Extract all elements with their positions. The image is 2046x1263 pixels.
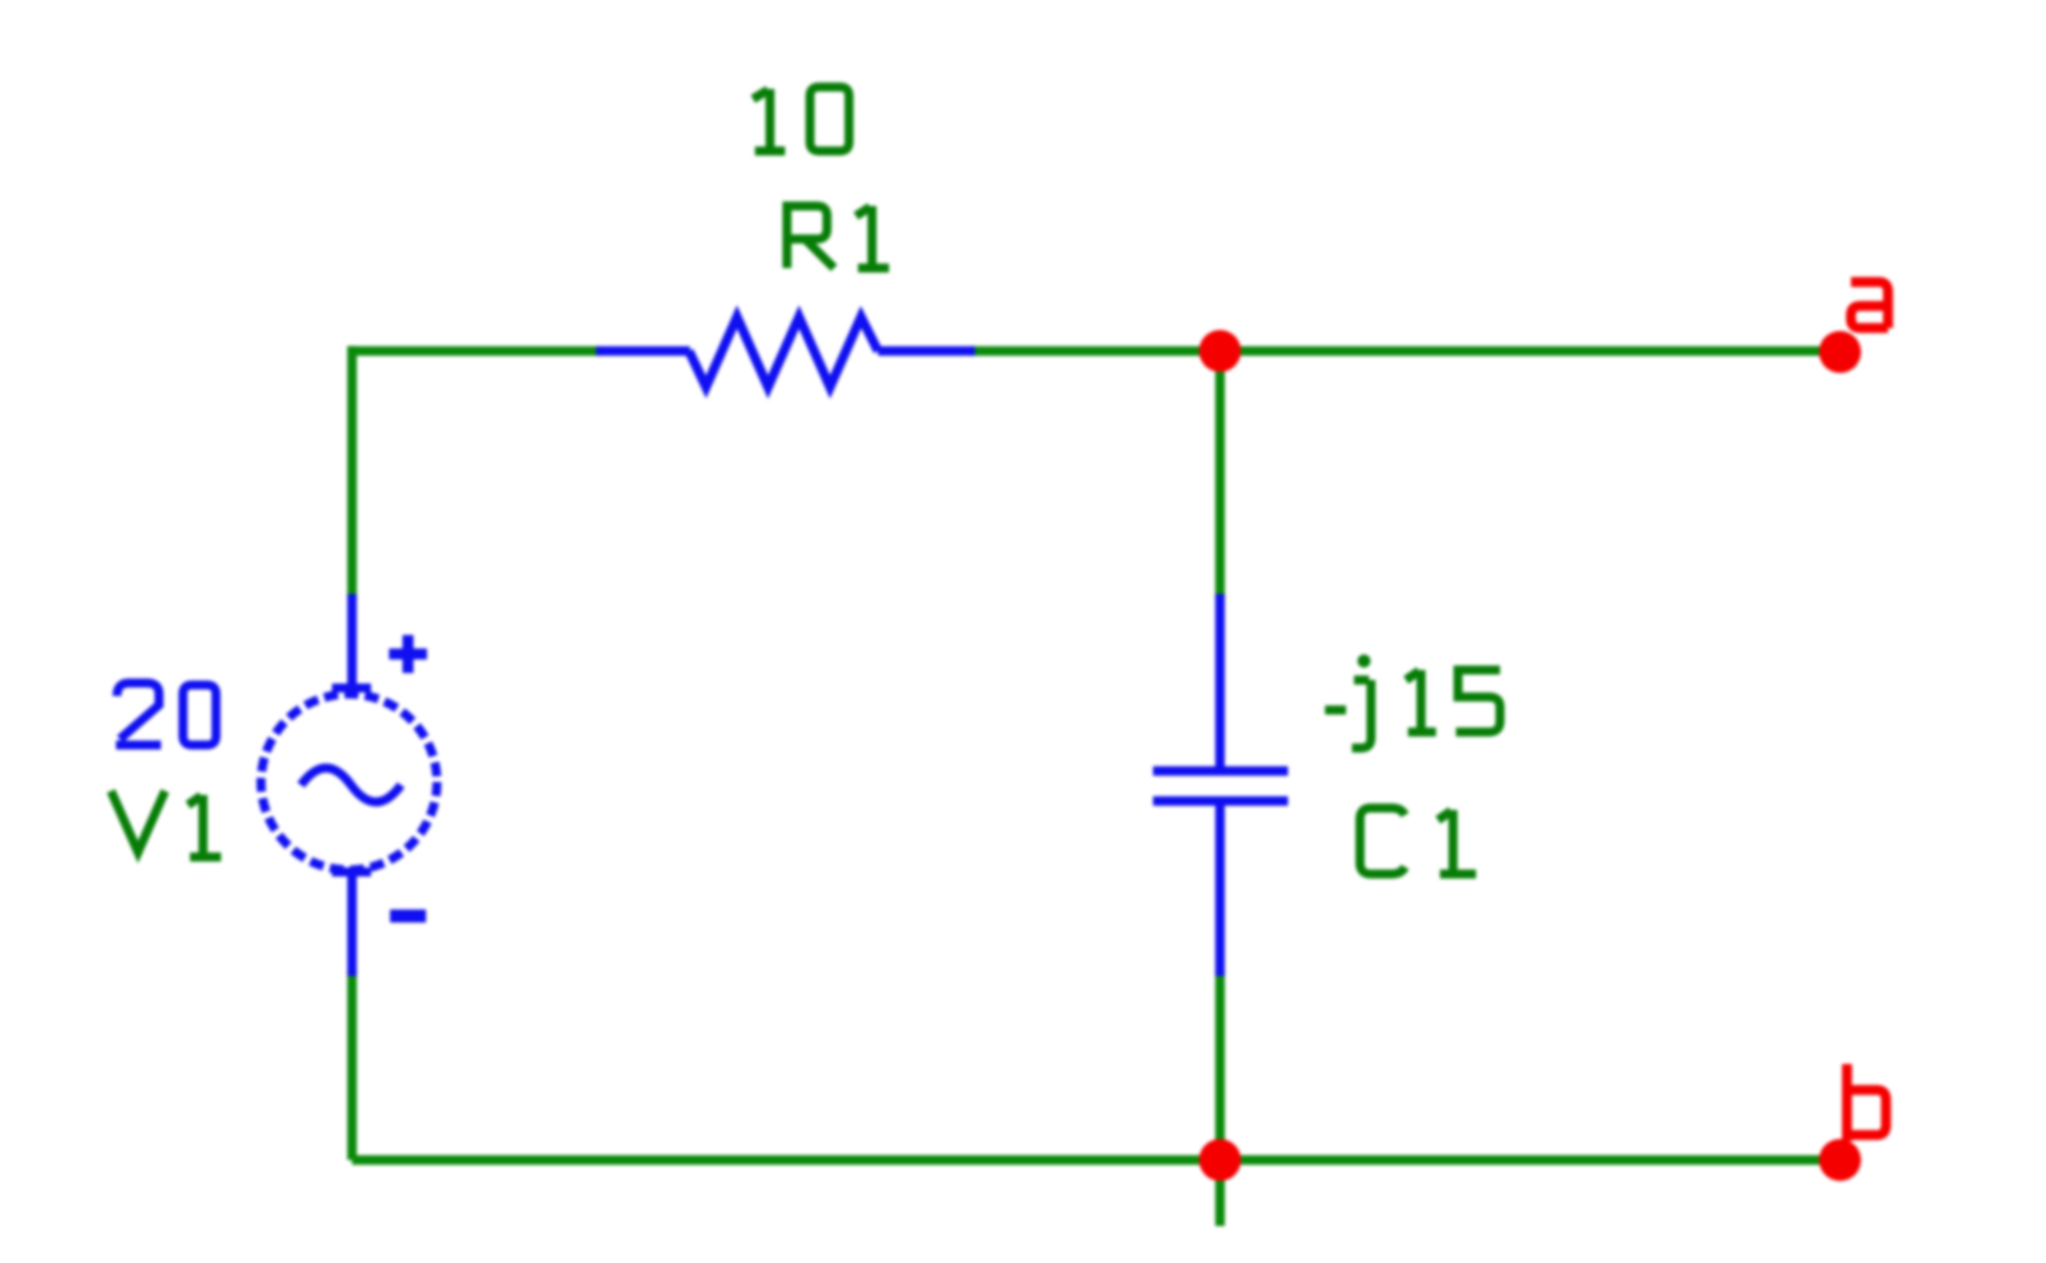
capacitor C1 bottom lead — [1215, 801, 1225, 976]
label V1 — [111, 791, 221, 857]
wire: top-left green segment from corner — [352, 346, 601, 356]
resistor R1 left lead — [596, 346, 690, 356]
terminal label a — [1851, 282, 1888, 328]
node junction bottom (V1/C1/b) — [1199, 1139, 1241, 1181]
wire: left vertical upper green — [347, 346, 357, 599]
terminal a dot — [1819, 331, 1861, 373]
wire: stub below bottom node — [1215, 1160, 1225, 1226]
resistor R1 zigzag body — [689, 317, 878, 387]
wire: middle vertical lower green — [1215, 971, 1225, 1160]
label -j15 (C1 value) — [1325, 670, 1500, 748]
V1 plus sign — [389, 635, 427, 673]
wire: top right green segment to terminal a — [970, 346, 1840, 356]
terminal label b — [1847, 1064, 1886, 1141]
wire: bottom horizontal — [352, 1155, 1840, 1165]
label 20 (V1 value) — [116, 683, 216, 745]
label 10 (R1 value) — [753, 87, 849, 151]
resistor R1 right lead — [878, 346, 975, 356]
wire: middle vertical upper green (node to C1 lead) — [1215, 351, 1225, 599]
voltage source V1 bottom tick — [332, 868, 371, 877]
capacitor C1 top lead — [1215, 594, 1225, 771]
voltage source V1 top lead — [347, 594, 357, 690]
node junction top (R1/C1/a) — [1199, 330, 1241, 372]
voltage source V1 bottom lead — [347, 872, 357, 976]
label R1 — [787, 206, 889, 268]
capacitor C1 top plate — [1153, 766, 1288, 776]
voltage source V1 circle — [261, 694, 437, 870]
voltage source V1 sine wave — [301, 768, 401, 802]
wire: left vertical lower green — [347, 971, 357, 1160]
V1 minus sign — [390, 910, 426, 923]
voltage source V1 top tick — [332, 684, 371, 693]
capacitor C1 bottom plate — [1153, 796, 1288, 806]
terminal b dot — [1819, 1139, 1861, 1181]
label C1 — [1360, 808, 1476, 874]
